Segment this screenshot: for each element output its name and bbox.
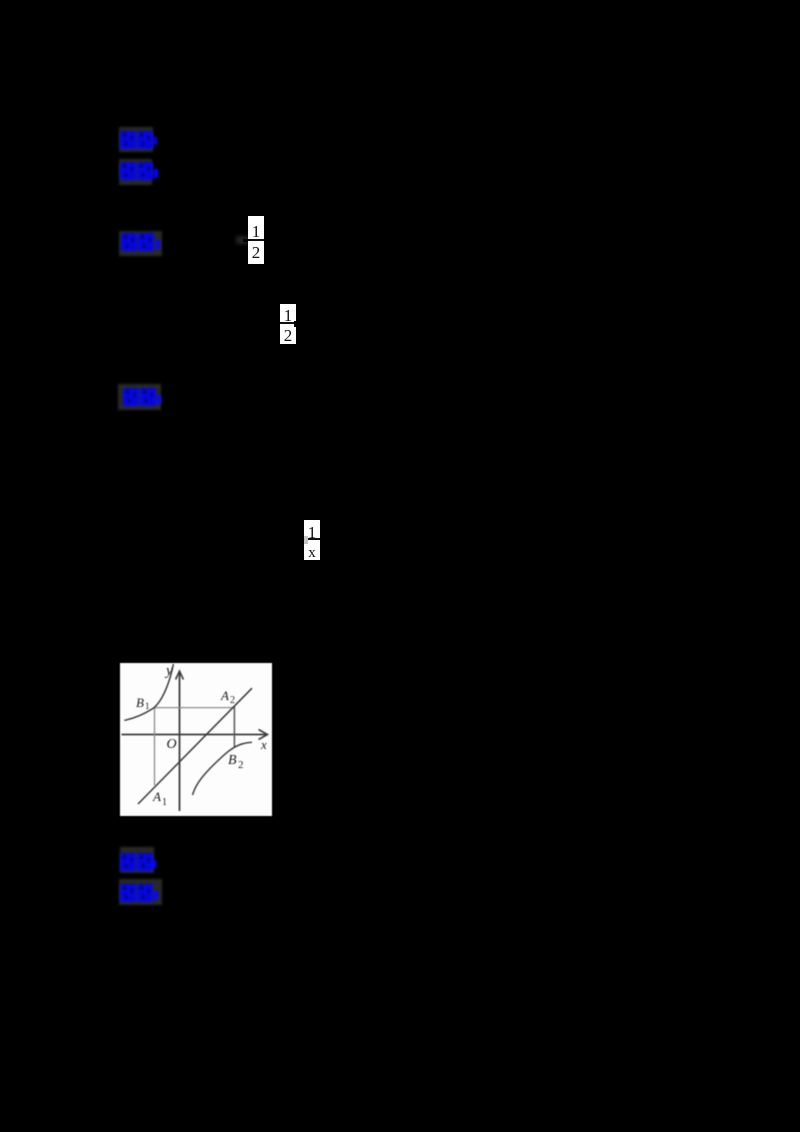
label dianping gray halo bbox=[118, 384, 161, 410]
label kaodian 2 blue text bbox=[120, 853, 160, 873]
fraction 1/x white box bbox=[304, 520, 320, 560]
svg-text:B: B bbox=[228, 753, 237, 768]
svg-text:O: O bbox=[167, 737, 177, 752]
rectangle vertical line B1-A1 bbox=[154, 708, 156, 786]
label fenxi blue text bbox=[119, 161, 159, 181]
label dianping blue text bbox=[122, 387, 164, 407]
rectangle vertical line A2-B2 bbox=[233, 707, 235, 748]
svg-text:A: A bbox=[152, 789, 161, 804]
gray nub left of 1/x bar bbox=[304, 536, 308, 544]
y-axis arrow bbox=[176, 671, 184, 680]
label jieda blue text bbox=[120, 232, 162, 252]
svg-text:x: x bbox=[260, 737, 267, 752]
fraction 1/2 first: minus dash bbox=[243, 239, 253, 242]
svg-text:y: y bbox=[164, 663, 173, 679]
x-axis bbox=[122, 734, 267, 736]
fraction 1/2 first white box bbox=[248, 216, 264, 264]
comma after second fraction bbox=[294, 321, 298, 327]
svg-text:1: 1 bbox=[162, 797, 167, 808]
label kaodian 1 gray halo bbox=[119, 127, 153, 152]
figure white box with graph bbox=[120, 663, 272, 816]
svg-text:2: 2 bbox=[238, 759, 244, 771]
x-axis arrow bbox=[259, 730, 268, 740]
hyperbola branch fourth quadrant through B2 bbox=[193, 742, 253, 795]
svg-text:1: 1 bbox=[145, 701, 150, 711]
diagonal line A1-A2 bbox=[138, 688, 252, 804]
y-axis bbox=[179, 672, 181, 811]
svg-text:B: B bbox=[136, 695, 144, 710]
rectangle horizontal line B1-A2 bbox=[155, 707, 235, 709]
fraction 1/2 second white box bbox=[280, 304, 296, 344]
label zhuanti gray halo bbox=[119, 879, 162, 905]
label kaodian 2 gray halo bbox=[120, 847, 154, 873]
fraction 1/2 first: minus halo bbox=[236, 236, 248, 244]
label zhuanti blue text bbox=[120, 884, 162, 904]
svg-text:A: A bbox=[220, 688, 229, 703]
label kaodian 1 blue text bbox=[119, 130, 159, 150]
svg-text:2: 2 bbox=[230, 695, 235, 706]
label fenxi gray halo bbox=[119, 159, 152, 185]
figure background bbox=[120, 663, 272, 816]
label jieda gray halo bbox=[119, 231, 162, 256]
hyperbola branch second quadrant through B1 bbox=[124, 664, 173, 720]
